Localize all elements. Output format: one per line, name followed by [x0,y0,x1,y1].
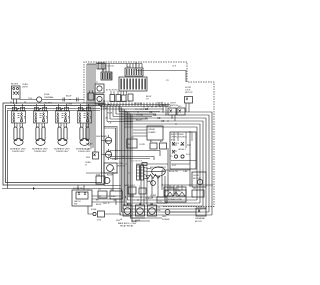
svg-text:250F: 250F [156,210,161,212]
svg-text:BU-BK: BU-BK [107,175,114,177]
svg-text:LT SW: LT SW [150,195,156,197]
svg-text:RELAY RELAY: RELAY RELAY [120,225,134,228]
svg-text:L1 L2: L1 L2 [34,110,40,112]
svg-text:BU-GY: BU-GY [136,120,143,122]
svg-text:EOC: EOC [171,140,176,142]
svg-text:1200W 240V: 1200W 240V [34,151,47,153]
svg-text:L1 L2: L1 L2 [78,110,84,112]
svg-text:CLOCK: CLOCK [107,66,115,68]
svg-text:TERMINAL: TERMINAL [195,217,206,220]
svg-text:SW: SW [74,204,77,206]
svg-text:L1 N: L1 N [172,66,177,68]
svg-text:OR-BK Y: OR-BK Y [178,149,187,151]
svg-text:2350W 240V: 2350W 240V [12,151,25,153]
svg-text:SURFACE UNIT: SURFACE UNIT [32,148,48,151]
svg-text:RELAY: RELAY [131,220,138,223]
svg-text:RELAY: RELAY [86,143,93,146]
svg-text:SURFACE UNIT: SURFACE UNIT [10,148,26,151]
svg-text:GND: GND [162,216,167,218]
svg-text:OVEN LT: OVEN LT [145,198,154,200]
svg-text:W: W [99,196,101,198]
svg-text:P.CORD: P.CORD [167,188,175,190]
svg-text:RELAY: RELAY [149,128,156,131]
svg-text:BLOCK: BLOCK [195,221,202,223]
svg-text:1 2 3 4 5 6 7: 1 2 3 4 5 6 7 [131,161,143,163]
svg-text:W-BK: W-BK [106,151,112,153]
svg-text:MOTOR: MOTOR [185,92,193,94]
svg-text:TOD: TOD [158,201,163,203]
svg-text:BK-W: BK-W [96,204,101,206]
svg-text:DOOR: DOOR [193,175,200,177]
svg-text:GY-R: GY-R [172,151,177,153]
svg-text:BAKE: BAKE [147,180,153,183]
svg-text:L1 L2: L1 L2 [12,110,18,112]
svg-text:SURFACE UNIT: SURFACE UNIT [54,148,70,151]
svg-text:BK W-V: BK W-V [172,143,180,145]
svg-text:FUSE: FUSE [91,209,97,211]
svg-text:FUSE: FUSE [44,94,50,96]
svg-text:BROIL ELEMENT: BROIL ELEMENT [150,167,167,169]
svg-text:1200W 240V: 1200W 240V [78,151,91,153]
svg-text:W-BK: W-BK [107,113,113,115]
svg-text:MOTOR: MOTOR [193,178,201,180]
svg-text:BU-W OR: BU-W OR [169,171,178,173]
svg-text:TOD: TOD [156,207,161,209]
svg-text:BK-W: BK-W [66,96,71,98]
svg-text:BK-R: BK-R [106,141,111,143]
svg-text:DOOR SW: DOOR SW [73,188,83,190]
svg-text:W-R: W-R [103,203,108,205]
svg-text:CONN: CONN [66,104,72,106]
svg-text:V-BK: V-BK [111,196,116,198]
svg-text:DLB: DLB [116,220,121,222]
svg-text:LIGHT: LIGHT [22,87,29,89]
svg-text:HI-LIMIT: HI-LIMIT [44,103,53,105]
svg-text:POWER CORD: POWER CORD [168,199,183,201]
svg-text:W-R: W-R [86,157,91,159]
svg-text:TOD: TOD [97,220,102,222]
svg-text:L1 L2: L1 L2 [56,110,62,112]
svg-text:SURFACE UNIT: SURFACE UNIT [76,148,92,151]
svg-text:2350W 240V: 2350W 240V [56,151,69,153]
svg-text:Y-BK: Y-BK [183,171,188,173]
svg-text:BK W R: BK W R [11,84,19,86]
svg-text:BOARD: BOARD [149,131,157,134]
svg-text:DLB RELAY: DLB RELAY [96,135,108,138]
svg-text:DLB: DLB [167,106,172,108]
svg-text:OR-BK: OR-BK [136,115,143,117]
svg-text:K1 K2 K3 K4: K1 K2 K3 K4 [106,90,118,92]
svg-text:THERMAL: THERMAL [44,96,54,99]
svg-text:CONV: CONV [139,144,145,146]
svg-text:OR V BU: OR V BU [134,103,143,105]
svg-text:SCREW: SCREW [162,219,170,221]
svg-text:SWITCH: SWITCH [157,105,165,107]
svg-text:GY-BK: GY-BK [128,196,135,198]
svg-text:OVEN CONTROL: OVEN CONTROL [171,137,188,139]
svg-text:GY V W-R BK: GY V W-R BK [135,109,148,111]
svg-text:R-W: R-W [96,175,100,177]
svg-text:TOD: TOD [28,98,33,100]
svg-text:Y-R: Y-R [108,123,112,125]
svg-text:MOTOR: MOTOR [117,166,125,168]
svg-text:W BU OR-R: W BU OR-R [124,185,135,187]
svg-text:1 2 3 4 5 6 7 8 9 10 11 12 13: 1 2 3 4 5 6 7 8 9 10 11 12 13 14 15 [99,101,131,103]
svg-text:RLY: RLY [178,106,182,108]
svg-text:V-W: V-W [112,159,116,161]
